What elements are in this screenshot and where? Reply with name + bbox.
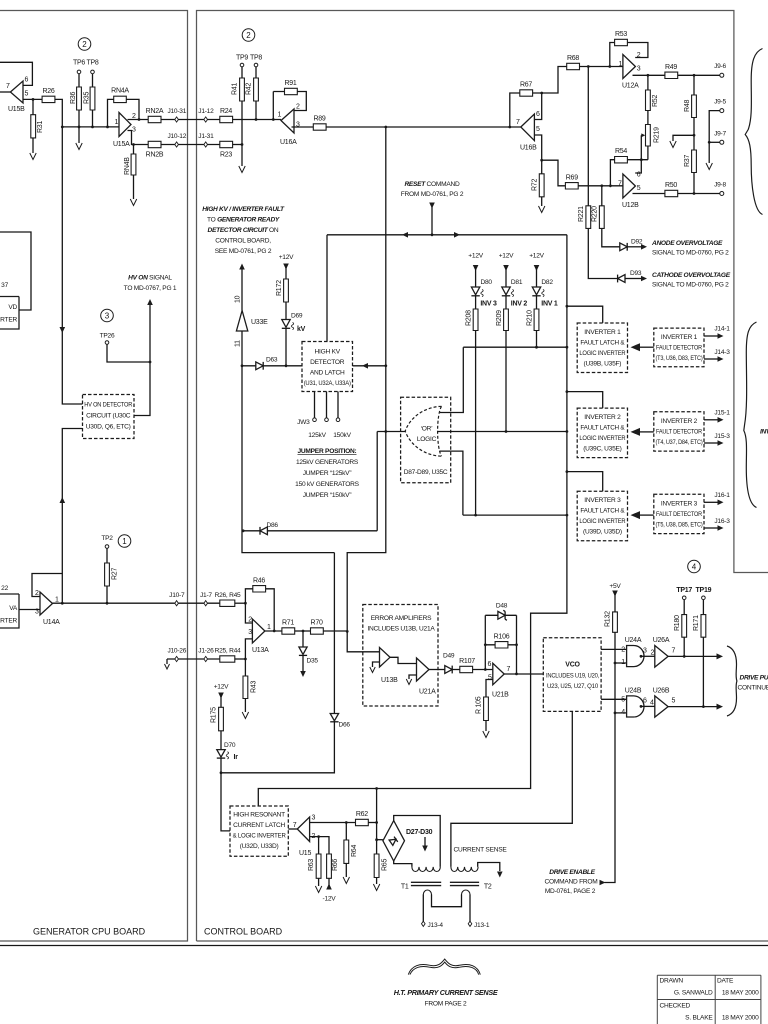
node TP8 line xyxy=(91,126,94,129)
node output junction xyxy=(273,630,276,633)
svg-text:125kV GENERATORS: 125kV GENERATORS xyxy=(296,459,359,466)
svg-text:D87-D89, U35C: D87-D89, U35C xyxy=(404,469,448,476)
node junction R67 right xyxy=(540,92,543,95)
wire in4 xyxy=(615,712,627,714)
svg-text:2: 2 xyxy=(248,617,252,624)
wire R91 ends xyxy=(273,92,306,111)
svg-text:18 MAY 2000: 18 MAY 2000 xyxy=(722,990,759,997)
svg-text:+12V: +12V xyxy=(214,684,229,691)
svg-text:3: 3 xyxy=(132,127,136,134)
node output junction xyxy=(61,602,64,605)
wire R221 to D93 xyxy=(588,228,617,278)
svg-text:3: 3 xyxy=(637,66,641,73)
wire R220 top xyxy=(601,186,603,206)
resistor R24 xyxy=(220,116,233,122)
circled 2 xyxy=(242,29,255,42)
svg-text:U30D, Q6, ETC): U30D, Q6, ETC) xyxy=(86,424,131,431)
node R48 top xyxy=(693,74,696,77)
supply -12V arrow xyxy=(326,884,332,890)
signal arrow down xyxy=(300,671,306,677)
svg-text:4: 4 xyxy=(650,700,654,707)
svg-text:6: 6 xyxy=(488,661,492,668)
wire R27 down xyxy=(106,586,108,603)
svg-text:J1-12: J1-12 xyxy=(198,108,214,115)
svg-text:& LOGIC INVERTER: & LOGIC INVERTER xyxy=(233,833,286,840)
board outline CONTROL BOARD bottom xyxy=(197,940,768,942)
wire R63 to ground xyxy=(318,878,320,886)
svg-text:R43: R43 xyxy=(251,681,258,693)
wire to inverter3 latch xyxy=(567,472,603,492)
wire D63 row xyxy=(242,365,302,367)
svg-text:D63: D63 xyxy=(266,357,278,364)
wire U14A output xyxy=(53,602,220,604)
svg-text:7: 7 xyxy=(6,83,10,90)
signal arrow right into wire xyxy=(600,880,606,886)
wire U16A out3 xyxy=(292,126,314,128)
svg-text:FAULT DETECTOR: FAULT DETECTOR xyxy=(656,345,702,352)
wire R37 bottom xyxy=(693,173,695,194)
resistor R208 xyxy=(473,309,478,331)
wire arrow to U33E xyxy=(241,269,243,311)
resistor R210 xyxy=(534,309,539,331)
svg-text:DRIVE PU: DRIVE PU xyxy=(740,675,768,682)
gate U24B xyxy=(627,696,644,717)
circled 4 xyxy=(688,560,701,573)
svg-text:J14-3: J14-3 xyxy=(714,349,730,356)
node junction y144.5 xyxy=(241,143,244,146)
svg-text:U15B: U15B xyxy=(8,106,25,113)
svg-text:INV 1: INV 1 xyxy=(541,301,558,308)
svg-text:CIRCUIT (U30C: CIRCUIT (U30C xyxy=(86,413,131,420)
wire reset to bus xyxy=(431,207,433,235)
node junction OR line xyxy=(505,430,508,433)
svg-text:6: 6 xyxy=(25,77,29,84)
svg-text:D69: D69 xyxy=(291,313,303,320)
svg-text:D49: D49 xyxy=(443,653,455,660)
svg-text:2: 2 xyxy=(651,650,655,657)
svg-text:5: 5 xyxy=(536,126,540,133)
box INVERTER 2 FAULT DETECTOR xyxy=(654,412,704,451)
svg-text:10: 10 xyxy=(235,295,242,303)
svg-text:R171: R171 xyxy=(693,615,700,631)
resistor R67 xyxy=(520,90,533,96)
wire R106 ends xyxy=(485,644,516,646)
svg-text:HIGH KV: HIGH KV xyxy=(315,349,341,356)
board outline CONTROL BOARD xyxy=(197,11,768,942)
title block table xyxy=(657,975,761,1024)
svg-text:(T5, U38, D85, ETC): (T5, U38, D85, ETC) xyxy=(656,522,703,529)
svg-text:FAULT LATCH &: FAULT LATCH & xyxy=(580,508,625,515)
wire J10-26 row xyxy=(167,658,220,660)
wire R70 to fault node xyxy=(323,630,347,632)
svg-text:D48: D48 xyxy=(496,603,508,610)
box INVERTER 1 FAULT LATCH xyxy=(577,323,627,373)
resistor R35 xyxy=(90,87,95,110)
svg-text:J9-8: J9-8 xyxy=(714,182,726,189)
svg-text:VCO: VCO xyxy=(565,662,580,669)
box partial inverter left xyxy=(0,297,19,330)
svg-text:R64: R64 xyxy=(351,845,358,857)
wire bridge bottom to T1 left xyxy=(394,861,412,867)
svg-text:RN4B: RN4B xyxy=(124,157,131,175)
wire R64 top stub xyxy=(345,823,347,841)
svg-text:5: 5 xyxy=(488,675,492,682)
wire R220 to D92 xyxy=(602,228,620,246)
signal arrow right xyxy=(717,704,724,710)
wire detector3 to latch3 xyxy=(640,514,654,516)
wire +12V to R175 xyxy=(220,694,222,707)
svg-text:R62: R62 xyxy=(356,811,368,818)
wire R69 to U12B xyxy=(578,185,623,187)
box partial inverter left xyxy=(0,594,19,628)
svg-text:R26: R26 xyxy=(42,88,54,95)
wire R31 to ground xyxy=(32,138,34,153)
resistor R37 xyxy=(692,150,697,173)
resistor R63 xyxy=(316,854,321,878)
svg-text:(T3, U36, D83, ETC): (T3, U36, D83, ETC) xyxy=(656,355,703,362)
wire R132 down to drive enable xyxy=(605,632,616,882)
svg-text:J13-1: J13-1 xyxy=(474,922,490,929)
wire TP6 xyxy=(78,74,80,87)
resistor R172 xyxy=(284,279,289,302)
svg-text:J15-1: J15-1 xyxy=(714,410,730,417)
svg-text:7: 7 xyxy=(507,666,511,673)
node inv1 tap xyxy=(566,305,569,308)
svg-text:D82: D82 xyxy=(541,279,553,286)
node U24B in4 xyxy=(614,712,617,715)
svg-text:TP19: TP19 xyxy=(696,587,712,594)
wire R62 to x376 node xyxy=(368,822,376,824)
svg-text:LOGIC INVERTER: LOGIC INVERTER xyxy=(579,435,625,442)
svg-text:R67: R67 xyxy=(520,82,532,89)
resistor RN4B xyxy=(131,154,136,175)
svg-text:R65: R65 xyxy=(382,859,389,871)
wire x243 from U33E node to D86 corner xyxy=(242,366,334,553)
node OR line tap xyxy=(566,430,569,433)
brace INVERTER FAULT group xyxy=(744,322,757,508)
svg-text:JW3: JW3 xyxy=(297,419,310,426)
op-amp U15B xyxy=(10,81,23,103)
svg-text:D93: D93 xyxy=(630,270,642,277)
node junction xyxy=(255,118,258,121)
resistor R52 xyxy=(646,90,651,111)
svg-text:U14A: U14A xyxy=(43,619,60,626)
ground arrow xyxy=(670,141,676,148)
wire R49 to J9-6 xyxy=(678,74,720,76)
wire RN4B to ground xyxy=(133,175,135,199)
svg-text:6: 6 xyxy=(643,698,647,705)
svg-text:INVERTER 1: INVERTER 1 xyxy=(584,329,621,336)
wire VCO bottom out to T2 xyxy=(451,711,572,867)
wire x567 long vertical xyxy=(258,235,567,806)
svg-text:R46: R46 xyxy=(253,578,265,585)
svg-text:DATE: DATE xyxy=(717,978,734,985)
svg-text:U21A: U21A xyxy=(419,689,436,696)
wire R41 down to J1-31 row xyxy=(241,101,243,145)
node junction xyxy=(244,602,247,605)
wire LED line y347 xyxy=(463,346,567,348)
wire feedback left vertical xyxy=(484,615,486,669)
resistor R26 xyxy=(42,96,55,102)
wire R180 down xyxy=(683,637,685,656)
svg-text:RESET COMMAND: RESET COMMAND xyxy=(404,181,460,188)
ground arrow xyxy=(483,731,489,738)
svg-text:D81: D81 xyxy=(511,279,523,286)
wire R53 feedback xyxy=(610,43,648,67)
resistor RN2A xyxy=(148,116,161,122)
node gate out xyxy=(640,705,643,708)
wire RN4A left xyxy=(108,99,114,127)
wire R91 feedback left xyxy=(272,92,274,120)
gate 'OR' D87-D89 xyxy=(405,406,441,456)
svg-text:HIGH RESONANT: HIGH RESONANT xyxy=(233,812,285,819)
resistor R70 xyxy=(311,628,324,634)
node reset junction xyxy=(431,233,434,236)
svg-text:H.T. PRIMARY CURRENT SENSE: H.T. PRIMARY CURRENT SENSE xyxy=(394,988,498,997)
svg-text:R35: R35 xyxy=(84,92,91,104)
svg-text:R49: R49 xyxy=(665,64,677,71)
resistor R64 xyxy=(344,840,349,863)
svg-text:R50: R50 xyxy=(665,182,677,189)
wire pin5 out xyxy=(534,135,565,186)
signal arrow up to HV ON SIGNAL xyxy=(147,299,153,305)
signal arrow right xyxy=(641,276,647,282)
wire box to U14A pin3 xyxy=(19,609,40,611)
wire J9-5 to J9-7 xyxy=(709,111,720,143)
svg-text:18 MAY 2000: 18 MAY 2000 xyxy=(722,1015,759,1022)
resistor R180 xyxy=(682,615,687,638)
node RN4A left xyxy=(106,126,109,129)
node feedback left xyxy=(484,668,487,671)
svg-text:R208: R208 xyxy=(466,310,473,326)
node junction fault vertical xyxy=(384,364,387,367)
svg-text:5: 5 xyxy=(637,185,641,192)
svg-text:COMMAND FROM: COMMAND FROM xyxy=(544,879,597,886)
wire R219 bottom xyxy=(647,146,649,160)
resistor R71 xyxy=(282,628,295,634)
svg-text:HIGH KV / INVERTER FAULT: HIGH KV / INVERTER FAULT xyxy=(202,206,285,213)
resistor R48 xyxy=(692,95,697,118)
node junction xyxy=(285,364,288,367)
T2 secondary xyxy=(462,890,471,894)
signal arrow left xyxy=(362,363,368,369)
svg-text:U26B: U26B xyxy=(653,688,670,695)
resistor R65 xyxy=(374,854,379,878)
wire D81 to R209 xyxy=(505,296,507,309)
node R63 top xyxy=(317,835,320,838)
svg-text:D27-D30: D27-D30 xyxy=(406,829,433,836)
svg-text:S. BLAKE: S. BLAKE xyxy=(685,1015,713,1022)
wire T2 right to arrow xyxy=(478,863,500,872)
svg-text:(U32D, U33D): (U32D, U33D) xyxy=(240,843,279,850)
op-amp U21B xyxy=(493,663,504,685)
node R106 right xyxy=(515,643,518,646)
resistor R105 xyxy=(484,697,489,721)
svg-text:(U39B, U35F): (U39B, U35F) xyxy=(584,361,622,368)
svg-text:ERTER: ERTER xyxy=(0,618,17,625)
brace DRIVE PULSES xyxy=(727,646,737,716)
wire J9-7 xyxy=(709,141,720,143)
svg-text:ERROR AMPLIFIERS: ERROR AMPLIFIERS xyxy=(371,615,432,622)
wire R105 to ground xyxy=(485,721,487,732)
wire D69 down xyxy=(285,328,287,366)
node LED line tap xyxy=(566,346,569,349)
node mid divider xyxy=(693,134,696,137)
wire D35 to arrow xyxy=(302,655,304,671)
svg-text:INV 3: INV 3 xyxy=(480,301,497,308)
node R54 right xyxy=(640,158,643,161)
svg-text:6: 6 xyxy=(536,111,540,118)
svg-text:J16-3: J16-3 xyxy=(714,518,730,525)
svg-text:R70: R70 xyxy=(311,620,323,627)
svg-text:R66: R66 xyxy=(332,859,339,871)
svg-text:1: 1 xyxy=(621,659,625,666)
svg-text:CATHODE OVERVOLTAGE: CATHODE OVERVOLTAGE xyxy=(652,272,731,279)
svg-text:J1-26: J1-26 xyxy=(198,648,214,655)
node junction R31 top xyxy=(32,98,35,101)
svg-text:22: 22 xyxy=(1,585,8,592)
svg-text:5: 5 xyxy=(25,91,29,98)
svg-text:D70: D70 xyxy=(224,742,236,749)
wire R35 down xyxy=(92,110,94,127)
wire U21B out to VCO xyxy=(504,673,543,675)
wire R68 to U12A xyxy=(580,66,623,68)
svg-text:INCLUDES U19, U20,: INCLUDES U19, U20, xyxy=(546,673,599,680)
signal arrow up xyxy=(239,264,245,270)
svg-text:kV: kV xyxy=(297,326,306,333)
node feedback left xyxy=(272,118,275,121)
wire TP26 to out xyxy=(107,344,150,362)
signal arrow left on bus xyxy=(402,232,408,238)
svg-text:U23, U25, U27, Q10: U23, U25, U27, Q10 xyxy=(547,683,599,690)
svg-text:(U39C, U35E): (U39C, U35E) xyxy=(583,446,621,453)
wire TP19 down xyxy=(702,600,704,615)
resistor R62 xyxy=(356,819,369,825)
svg-text:125kV: 125kV xyxy=(308,432,326,439)
wire U15B output xyxy=(23,98,42,100)
svg-text:T2: T2 xyxy=(484,884,492,891)
resistor R25,R44 xyxy=(220,656,235,662)
signal arrow down xyxy=(429,203,435,209)
svg-text:ERTER: ERTER xyxy=(0,317,17,324)
svg-text:R175: R175 xyxy=(211,707,218,723)
wire OR bottom input xyxy=(440,451,463,515)
svg-text:FAULT LATCH &: FAULT LATCH & xyxy=(580,340,625,347)
svg-text:J10-7: J10-7 xyxy=(169,592,185,599)
svg-text:U13B: U13B xyxy=(381,677,398,684)
svg-text:TO MD-0767, PG 1: TO MD-0767, PG 1 xyxy=(124,285,177,292)
resistor R43 xyxy=(243,676,248,699)
svg-text:INCLUDES U13B, U21A: INCLUDES U13B, U21A xyxy=(367,626,435,633)
svg-text:2: 2 xyxy=(296,104,300,111)
wire RN4A right xyxy=(126,99,139,119)
signal arrow down xyxy=(497,872,503,878)
svg-text:INVERTER 3: INVERTER 3 xyxy=(661,501,698,508)
wire OR output xyxy=(377,431,405,433)
wire bridge left stub xyxy=(377,839,383,841)
op-amp U21A xyxy=(417,658,430,681)
svg-text:TP2: TP2 xyxy=(101,535,113,542)
transformer T1 xyxy=(412,867,440,872)
svg-text:U16A: U16A xyxy=(280,139,297,146)
svg-text:D86: D86 xyxy=(267,522,279,529)
ground arrow xyxy=(242,712,248,719)
signal arrow right xyxy=(641,244,647,250)
wire U13A out xyxy=(265,630,282,632)
node bridge tap xyxy=(375,838,378,841)
node R64 top xyxy=(345,821,348,824)
wire junction to pin3 xyxy=(245,639,252,659)
svg-text:6: 6 xyxy=(637,172,641,179)
wire to inverter1 latch xyxy=(567,306,603,323)
wire x334 down through D66 xyxy=(221,553,334,773)
wire down xyxy=(708,142,710,163)
node R180 bottom xyxy=(683,655,686,658)
svg-text:R132: R132 xyxy=(605,611,612,627)
svg-text:1: 1 xyxy=(55,597,59,604)
ground arrow xyxy=(30,153,36,160)
wire U13B gnd stub xyxy=(373,662,380,667)
wire y347 corner down to OR input xyxy=(440,347,463,412)
T1 secondary xyxy=(423,890,431,895)
wire to pin6 xyxy=(534,93,541,120)
transformer T2 xyxy=(451,867,478,872)
wire bridge top loop to T1 right xyxy=(394,816,441,867)
svg-text:G. SANWALD: G. SANWALD xyxy=(674,990,713,997)
node junction xyxy=(244,658,247,661)
wire R36 down through junction to arrow xyxy=(78,110,80,143)
resistor R69 xyxy=(565,183,578,189)
svg-text:INVERTER 3: INVERTER 3 xyxy=(584,497,621,504)
wire y515 to x567 xyxy=(463,514,567,516)
buffer U33E xyxy=(236,311,247,332)
op-amp U12A xyxy=(623,55,636,79)
ground arrow xyxy=(239,166,245,173)
svg-text:DETECTOR: DETECTOR xyxy=(310,359,345,366)
resistor R91 xyxy=(285,88,298,94)
brace J9 group xyxy=(745,49,762,215)
svg-text:D35: D35 xyxy=(307,658,319,665)
wire R208 down to y515 xyxy=(475,331,477,516)
wire to pin6 U12B xyxy=(627,160,648,173)
wire to R68 xyxy=(542,67,567,94)
resistor R175 xyxy=(219,707,224,731)
wire R175 to D70 xyxy=(220,731,222,750)
svg-text:U12A: U12A xyxy=(622,83,639,90)
resistor R72 xyxy=(539,174,544,197)
node R171 bottom xyxy=(702,705,705,708)
svg-text:2: 2 xyxy=(246,31,251,40)
svg-text:INVER: INVER xyxy=(760,429,768,436)
svg-text:J15-3: J15-3 xyxy=(714,433,730,440)
op-amp U16B xyxy=(521,114,535,141)
svg-text:+12V: +12V xyxy=(468,253,483,260)
svg-text:R24: R24 xyxy=(220,108,232,115)
svg-text:R107: R107 xyxy=(459,658,475,665)
diode D35 xyxy=(302,631,304,647)
svg-text:R26, R45: R26, R45 xyxy=(215,592,241,599)
svg-text:(U31, U32A, U33A): (U31, U32A, U33A) xyxy=(304,380,351,387)
ground arrow xyxy=(706,163,712,170)
resistor R53 xyxy=(615,39,628,45)
ground arrow small xyxy=(165,664,170,669)
resistor R23 xyxy=(220,141,233,147)
wire R107 to U21B xyxy=(473,669,493,671)
node junction xyxy=(149,361,152,364)
wire to inverter2 latch xyxy=(567,392,603,409)
svg-text:J9-5: J9-5 xyxy=(714,99,726,106)
wire U15A out2 xyxy=(128,119,149,121)
